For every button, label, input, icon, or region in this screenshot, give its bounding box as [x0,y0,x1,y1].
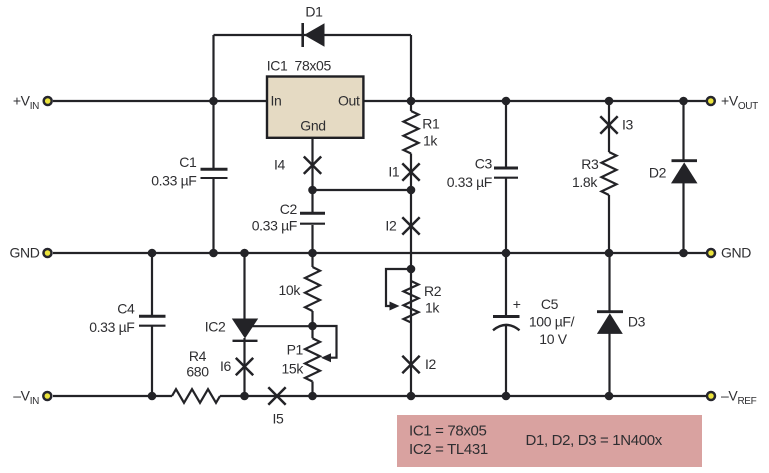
svg-text:I4: I4 [274,157,286,173]
svg-text:I2: I2 [425,356,437,372]
svg-text:In: In [271,93,282,109]
svg-text:0.33 µF: 0.33 µF [447,174,492,190]
svg-text:P1: P1 [287,341,304,357]
svg-text:C4: C4 [117,301,135,317]
svg-text:I6: I6 [220,358,232,374]
svg-text:R2: R2 [424,283,442,299]
svg-text:I3: I3 [622,117,634,133]
svg-text:C2: C2 [280,201,298,217]
svg-text:R4: R4 [189,348,207,364]
svg-text:R3: R3 [581,156,599,172]
svg-text:C5: C5 [541,296,559,312]
svg-text:D1: D1 [305,4,323,20]
svg-text:C3: C3 [475,156,493,172]
svg-text:C1: C1 [179,154,197,170]
svg-text:10k: 10k [278,282,301,298]
svg-text:680: 680 [186,364,209,380]
svg-text:IC2: IC2 [205,319,226,335]
svg-text:D2: D2 [649,164,667,180]
svg-text:Out: Out [338,93,360,109]
svg-text:Gnd: Gnd [300,118,325,134]
svg-text:D1, D2, D3 = 1N400x: D1, D2, D3 = 1N400x [526,432,663,449]
svg-text:GND: GND [9,245,39,261]
svg-text:0.33 µF: 0.33 µF [252,218,297,234]
svg-text:0.33 µF: 0.33 µF [151,173,196,189]
svg-text:100 µF/: 100 µF/ [529,314,575,330]
svg-text:D3: D3 [628,313,646,329]
svg-text:1k: 1k [423,133,438,149]
svg-text:1k: 1k [425,300,440,316]
svg-text:IC1 = 78x05: IC1 = 78x05 [409,423,486,440]
svg-text:IC1 78x05: IC1 78x05 [267,58,332,74]
svg-text:I5: I5 [273,411,285,427]
svg-text:I2: I2 [385,217,397,233]
svg-text:I1: I1 [388,164,400,180]
svg-text:+: + [513,296,521,312]
svg-text:1.8k: 1.8k [572,174,598,190]
svg-text:GND: GND [721,245,751,261]
svg-text:10 V: 10 V [539,331,567,347]
svg-text:IC2 = TL431: IC2 = TL431 [409,441,488,458]
svg-text:0.33 µF: 0.33 µF [89,319,134,335]
svg-text:R1: R1 [422,116,440,132]
svg-text:15k: 15k [281,361,304,377]
